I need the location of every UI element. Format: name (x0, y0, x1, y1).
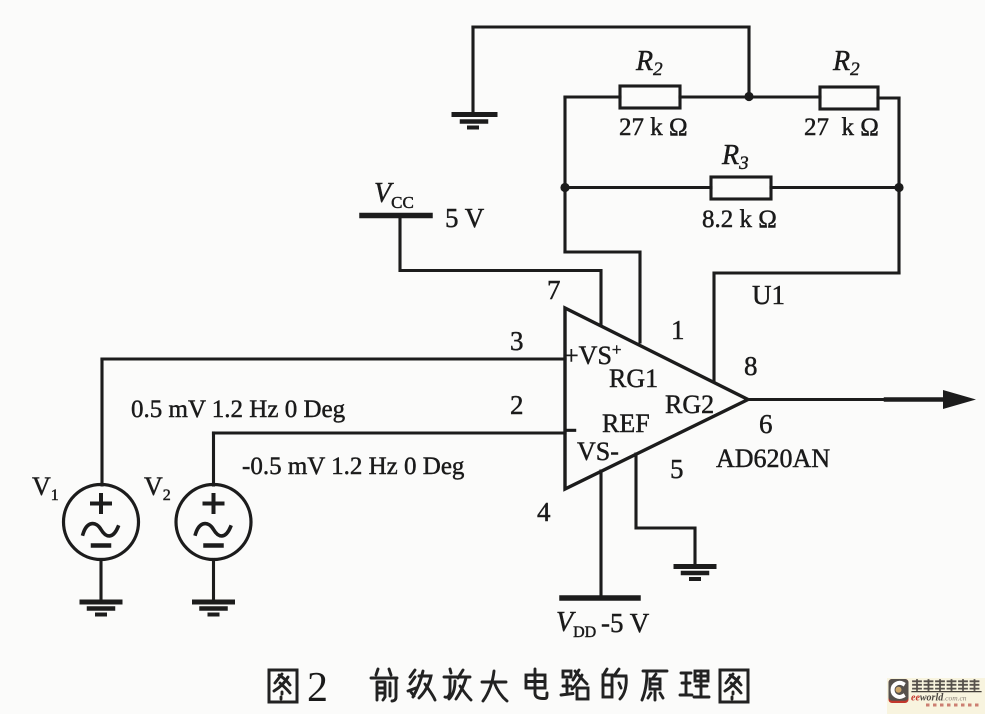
caption char LU (circuit) (561, 670, 588, 699)
svg-text:4: 4 (537, 497, 551, 527)
svg-text:8.2 k Ω: 8.2 k Ω (702, 206, 777, 233)
svg-text:2: 2 (307, 665, 328, 711)
wire pin 8 RG2 lead from right bus (714, 273, 899, 382)
svg-text:REF: REF (602, 409, 650, 438)
svg-text:R2: R2 (635, 46, 663, 80)
ground (top left) (454, 27, 495, 128)
caption char FANG (amplify-1) (444, 669, 471, 700)
caption char DIAN (electric) (526, 669, 547, 699)
svg-text:8: 8 (744, 351, 758, 381)
svg-text:7: 7 (547, 275, 561, 305)
resistor R3 (8.2 kOhm) (711, 177, 771, 199)
caption char JI (stage) (408, 670, 435, 700)
svg-text:V2: V2 (144, 472, 171, 504)
wire R2a left lead (565, 95, 620, 98)
caption char YUAN (principle-1) (642, 671, 667, 700)
svg-text:27 k Ω: 27 k Ω (804, 114, 879, 141)
wire left vertical from R2a to RG1 corner (563, 97, 566, 252)
caption numeral 2 (307, 665, 328, 711)
ground (below V2) (195, 602, 233, 615)
resistor R2 (left, 27 kOhm) (620, 86, 680, 108)
svg-text:0.5 mV 1.2 Hz 0 Deg: 0.5 mV 1.2 Hz 0 Deg (131, 396, 346, 423)
node R3 left junction (560, 183, 569, 192)
svg-text:VCC: VCC (374, 178, 414, 212)
power VDD rail bar (562, 595, 638, 601)
label minus tick above VS- (566, 429, 576, 432)
svg-text:R3: R3 (721, 140, 749, 174)
svg-text:-5 V: -5 V (601, 608, 650, 638)
wire input pin 3 (102, 357, 565, 360)
svg-text:5 V: 5 V (445, 203, 485, 233)
svg-text:V1: V1 (32, 472, 59, 504)
svg-text:AD620AN: AD620AN (716, 444, 830, 473)
wire R2b left lead (749, 95, 820, 98)
resistor R2 (right, 27 kOhm) (820, 87, 878, 109)
svg-text:U1: U1 (752, 280, 785, 310)
svg-text:RG2: RG2 (665, 390, 714, 419)
wire input pin 2 (214, 431, 566, 434)
wire R3 right lead (771, 186, 899, 189)
wire V1 bottom lead (99, 560, 102, 601)
node junction of R2a/R2b (744, 92, 753, 101)
ground (below V1) (82, 602, 120, 615)
op-amp U1 AD620AN triangle (565, 308, 748, 489)
svg-text:5: 5 (670, 454, 684, 484)
svg-text:3: 3 (510, 326, 524, 356)
caption char TU (figure) (269, 670, 297, 702)
caption char DE (of) (603, 669, 626, 699)
output arrowhead (943, 390, 976, 409)
wire VCC to pin 7 (400, 218, 601, 325)
caption char TU (figure, end) (720, 670, 748, 702)
wire V2 top lead (212, 433, 215, 485)
wire pin 5 REF to ground (636, 454, 695, 565)
wire output pin 6 (748, 398, 947, 401)
svg-text:VDD: VDD (556, 607, 596, 641)
wire junction drop (747, 27, 750, 96)
wire V1 top lead (100, 359, 103, 485)
wire R2b right lead (878, 96, 899, 99)
svg-text:VS-: VS- (577, 437, 619, 466)
caption char QIAN (front) (371, 669, 397, 701)
svg-text:1: 1 (671, 315, 685, 345)
caption char DA (big) (482, 671, 507, 701)
svg-text:RG1: RG1 (609, 364, 658, 393)
caption char LI (principle-2) (680, 671, 709, 697)
source V1 sine symbol (64, 485, 139, 560)
ground (REF pin 5) (676, 567, 714, 580)
watermark logo eeworld (887, 678, 985, 714)
svg-text:2: 2 (510, 390, 524, 420)
wire pin 4 VS- to VDD (599, 471, 602, 596)
svg-text:eeworld.com.cn: eeworld.com.cn (911, 693, 967, 704)
svg-text:-0.5 mV 1.2 Hz 0 Deg: -0.5 mV 1.2 Hz 0 Deg (242, 453, 465, 480)
power VCC rail bar (362, 213, 430, 219)
wire R3 left lead (565, 186, 711, 189)
wire right vertical bus (897, 98, 900, 273)
wire top rail from ground to R2 junction (473, 25, 749, 28)
wire pin 1 RG1 lead (565, 252, 640, 342)
svg-text:6: 6 (759, 409, 773, 439)
wire R2a right lead (680, 95, 749, 98)
node R3 right junction (894, 183, 903, 192)
source V2 sine symbol (176, 485, 251, 560)
svg-text:R2: R2 (832, 46, 860, 80)
wire V2 bottom lead (212, 560, 215, 601)
svg-text:27 k Ω: 27 k Ω (619, 114, 688, 141)
